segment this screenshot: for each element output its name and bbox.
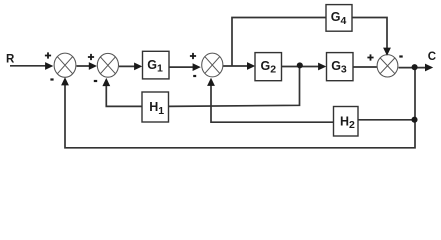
svg-text:R: R — [6, 53, 15, 65]
svg-text:C: C — [428, 51, 436, 63]
